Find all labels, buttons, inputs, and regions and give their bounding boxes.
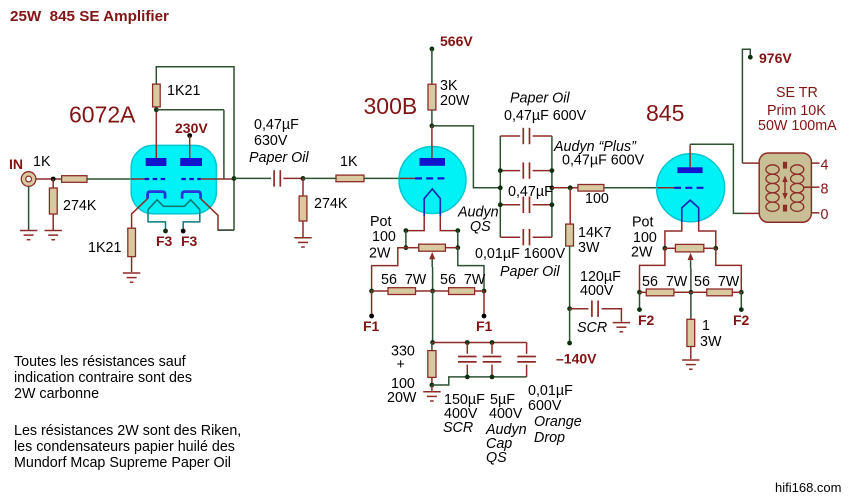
wire anode node to cap ladder — [432, 126, 500, 188]
svg-text:6072A: 6072A — [69, 102, 136, 128]
svg-text:0: 0 — [821, 207, 829, 223]
wire R8 to ground — [302, 221, 304, 237]
wire grid lead inside — [400, 177, 416, 179]
svg-text:1K: 1K — [340, 154, 358, 170]
wire C7 bottom lead — [491, 365, 493, 377]
capacitor C3 0,47uF 600V Audyn Plus — [523, 162, 529, 178]
U1 right anode plate — [180, 158, 202, 166]
node R3 bottom — [154, 107, 159, 112]
svg-text:0,47µF 600V: 0,47µF 600V — [562, 153, 645, 169]
capacitor C7 5uF 400V Audyn Cap QS — [483, 357, 502, 362]
resistor R13 56 7W — [449, 288, 475, 295]
wire C8 top lead — [526, 343, 528, 354]
node rail left b3 — [498, 202, 503, 207]
ground R14 — [423, 392, 440, 401]
svg-text:Les résistances 2W sont des Ri: Les résistances 2W sont des Riken, — [14, 423, 241, 439]
svg-text:Toutes les résistances sauf: Toutes les résistances sauf — [14, 354, 186, 370]
svg-text:0,01µF: 0,01µF — [528, 383, 573, 399]
terminal 230V test point — [187, 133, 192, 138]
wire input to ground — [28, 186, 30, 230]
resistor R3 1K21 plate load — [153, 84, 161, 107]
node ladder output tap — [550, 185, 555, 190]
U1 left anode plate — [146, 158, 167, 166]
svg-text:+: + — [397, 357, 405, 373]
wire T1 primary top pin — [742, 162, 759, 164]
transformer T1 body — [759, 153, 811, 222]
svg-text:Orange: Orange — [534, 414, 582, 430]
wire cap bus bottom — [432, 377, 527, 385]
resistor R11 14K7 3W — [566, 224, 574, 246]
wire left cathode to R6 — [132, 199, 148, 229]
U2 filament — [424, 189, 440, 216]
wire transformer pin stub bottom-left — [744, 212, 759, 214]
wire branch4 left — [500, 236, 520, 238]
wire anode to transformer 0 pin — [690, 144, 744, 213]
terminal F2 left — [637, 307, 642, 312]
node rail right b3 — [550, 202, 555, 207]
svg-text:2W: 2W — [369, 246, 391, 262]
P2 wiper arrow — [688, 253, 694, 268]
resistor R10 100 grid stopper 845 — [578, 185, 604, 192]
node R14 bottom — [430, 383, 435, 388]
svg-text:4: 4 — [821, 158, 829, 174]
wire to F2 right — [740, 292, 742, 309]
wire to F1 right — [483, 291, 485, 316]
wire C8 bottom lead — [526, 365, 528, 377]
wire left filament to pot — [405, 231, 407, 248]
wire R11 to bias node — [569, 246, 571, 309]
wire to F1 left — [371, 291, 373, 316]
wire node down to R8 — [302, 178, 304, 196]
svg-text:F1: F1 — [363, 318, 380, 334]
wire T1 tap 0 — [811, 212, 819, 214]
terminal F3 right — [181, 229, 186, 234]
U1 right grid (dashed) — [181, 178, 201, 180]
wire wiper845 down — [690, 268, 692, 292]
U1 left grid (dashed) — [145, 178, 166, 180]
svg-text:Pot: Pot — [632, 215, 653, 231]
node bus bottom C7 — [490, 375, 495, 380]
wire node to R2 — [52, 179, 54, 188]
resistor R1 1K series input — [62, 176, 87, 183]
wire C7 top lead — [491, 343, 493, 354]
svg-text:les condensateurs papier huilé: les condensateurs papier huilé des — [14, 439, 235, 455]
wire cathode node horizontal — [218, 229, 234, 231]
U1 right cathode — [182, 192, 200, 199]
svg-text:3W: 3W — [578, 240, 600, 256]
svg-text:QS: QS — [470, 219, 491, 235]
svg-text:100: 100 — [372, 229, 396, 245]
T1 coupling arrow — [782, 176, 787, 200]
wire to R15 — [640, 291, 647, 293]
T1 secondary winding — [791, 165, 804, 212]
wire R9 to node — [431, 110, 433, 126]
wire pot845 right branch — [716, 248, 742, 292]
capacitor C6 150uF 400V SCR — [458, 357, 477, 362]
svg-text:Prim 10K: Prim 10K — [767, 103, 826, 119]
svg-text:230V: 230V — [175, 120, 208, 136]
wire R3 top to output node — [156, 67, 234, 178]
capacitor C2 0,47uF 600V Paper Oil — [523, 128, 529, 144]
svg-text:56 7W: 56 7W — [381, 272, 427, 288]
svg-text:56 7W: 56 7W — [694, 274, 740, 290]
wire right grid to node — [201, 178, 234, 180]
potentiometer P1 100 2W hum pot — [419, 244, 446, 251]
wire wiper down — [432, 267, 434, 291]
potentiometer P2 100 2W hum pot 845 — [675, 244, 703, 252]
ground C9 — [613, 323, 630, 332]
wire branch3 right — [533, 204, 552, 206]
wire node to R14 — [431, 343, 433, 351]
node 845 grid net — [568, 185, 573, 190]
node bus C7 — [490, 340, 495, 345]
wire C6 bottom lead — [466, 365, 468, 377]
U2 anode plate — [420, 158, 446, 166]
resistor R12 56 7W — [388, 288, 416, 295]
wire T1 tap 8 — [804, 186, 820, 188]
svg-text:Paper Oil: Paper Oil — [249, 150, 309, 166]
node pot left 845 — [663, 246, 668, 251]
svg-text:274K: 274K — [314, 196, 348, 212]
wire B+ 976V rail — [742, 49, 750, 163]
tube U2 300B envelope — [399, 147, 466, 214]
resistor R8 274K grid leak 300B — [299, 196, 307, 221]
wire R17 to ground — [690, 347, 692, 360]
resistor R2 274K input shunt — [49, 188, 57, 214]
wire C6 top lead — [466, 343, 468, 354]
terminal F3 left — [163, 229, 168, 234]
T1 primary winding — [766, 165, 779, 212]
tube U3 845 envelope — [657, 154, 725, 222]
wire right cathode to node — [201, 199, 235, 231]
svg-text:Pot: Pot — [370, 214, 391, 230]
resistor R6 1K21 cathode — [128, 228, 136, 256]
svg-text:14K7: 14K7 — [578, 225, 611, 241]
svg-text:274K: 274K — [63, 198, 97, 214]
node filament right — [455, 228, 460, 233]
svg-text:hifi168.com: hifi168.com — [775, 480, 841, 495]
capacitor C4 0,47uF Audyn QS — [523, 197, 529, 213]
wire down to right grid — [223, 110, 225, 179]
svg-text:20W: 20W — [387, 390, 417, 406]
tube U1 6072A envelope — [131, 145, 216, 213]
wire pot845 right stub — [704, 247, 716, 249]
node pot right 845 — [713, 246, 718, 251]
wire ladder left rail — [499, 136, 501, 237]
wire R3 to U1 left anode — [155, 110, 157, 158]
wire to R12 — [372, 290, 388, 292]
svg-text:1K21: 1K21 — [167, 83, 200, 99]
svg-text:2W carbonne: 2W carbonne — [14, 386, 99, 402]
svg-text:SCR: SCR — [443, 420, 473, 436]
node bus bottom C6 — [465, 375, 470, 380]
svg-text:845: 845 — [646, 100, 684, 126]
ground R17 — [682, 360, 699, 369]
wire to F2 left — [639, 292, 641, 309]
svg-text:Paper Oil: Paper Oil — [510, 91, 570, 107]
wire grid lead inside U3 — [657, 187, 674, 189]
U3 anode plate — [677, 167, 702, 173]
capacitor C8 0,01uF 600V Orange Drop — [517, 357, 536, 362]
svg-text:400V: 400V — [489, 406, 523, 422]
resistor R15 56 7W — [646, 289, 674, 296]
wire to ground R14 — [431, 385, 433, 391]
wire center down to R14 — [432, 291, 434, 343]
node hum right 845 — [739, 290, 744, 295]
node 300B anode supply — [430, 124, 435, 129]
node bus C6 — [465, 340, 470, 345]
resistor R9 3K 20W — [428, 84, 436, 110]
resistor R7 1K grid stopper 300B — [336, 175, 364, 182]
wire center to R13 — [433, 290, 449, 292]
P1 wiper arrow — [429, 252, 435, 267]
U1 heater filament — [148, 200, 200, 210]
svg-text:100: 100 — [585, 191, 609, 207]
node hum center 300B — [430, 289, 435, 294]
ground R6 — [123, 273, 140, 282]
svg-text:IN: IN — [9, 156, 23, 172]
svg-text:630V: 630V — [254, 133, 288, 149]
wire right filament to pot — [457, 231, 459, 248]
wire pot left to hum network — [372, 248, 406, 291]
wire node to C9 — [570, 308, 589, 310]
wire C9 to ground — [602, 309, 622, 322]
wire R15 to center — [674, 291, 691, 293]
wire pot845 left branch — [640, 248, 665, 292]
node rail right b2 — [550, 168, 555, 173]
ground input — [20, 231, 37, 240]
wire ladder right rail — [551, 136, 553, 237]
U1 left cathode — [148, 192, 166, 199]
wire T1 tap 4 — [811, 162, 819, 164]
wire branch1 right — [533, 135, 552, 137]
wire center to R17 — [690, 292, 692, 319]
terminal 976V — [748, 55, 753, 60]
capacitor C1 0,47uF 630V — [274, 170, 280, 186]
wire R12 to center — [416, 290, 433, 292]
svg-text:F2: F2 — [638, 312, 655, 328]
node R14 top — [430, 340, 435, 345]
wire heater right lead — [183, 210, 200, 229]
node input junction — [51, 177, 56, 182]
resistor R14 330+100 20W — [428, 351, 436, 378]
terminal F1 right — [482, 314, 487, 319]
svg-text:QS: QS — [486, 450, 507, 466]
svg-text:400V: 400V — [580, 283, 614, 299]
svg-text:8: 8 — [821, 182, 829, 198]
wire R6 to ground — [131, 257, 133, 272]
wire filament left leg — [406, 216, 424, 231]
wire bias node down — [569, 309, 571, 343]
svg-text:F2: F2 — [733, 312, 750, 328]
wire R16 right — [732, 291, 741, 293]
wire output node down — [233, 178, 235, 230]
wire 566V to R9 — [431, 49, 433, 84]
wire 230V to right anode — [189, 136, 191, 159]
terminal F1 left — [369, 314, 374, 319]
svg-text:0,47µF 600V: 0,47µF 600V — [504, 108, 587, 124]
wire branch4 right — [533, 236, 552, 238]
svg-text:976V: 976V — [759, 50, 792, 66]
resistor R16 56 7W — [707, 289, 733, 296]
node hum center 845 — [689, 290, 694, 295]
svg-text:50W 100mA: 50W 100mA — [758, 118, 837, 134]
U3 grid (dashed) — [674, 187, 704, 189]
terminal -140V — [567, 341, 572, 346]
capacitor C9 120uF 400V SCR — [592, 301, 598, 317]
wire U3 filament left leg — [665, 222, 682, 248]
U3 filament — [682, 200, 699, 222]
node hum left 845 — [637, 290, 642, 295]
svg-text:3W: 3W — [700, 334, 722, 350]
svg-text:0,47µF: 0,47µF — [254, 117, 299, 133]
svg-text:600V: 600V — [528, 398, 562, 414]
node bias — [567, 306, 572, 311]
svg-text:Mundorf Mcap Supreme Paper Oil: Mundorf Mcap Supreme Paper Oil — [14, 455, 231, 471]
node 300B grid net — [301, 176, 306, 181]
node ladder input tap — [498, 185, 503, 190]
svg-text:566V: 566V — [440, 33, 473, 49]
wire branch2 right — [533, 170, 552, 172]
wire branch1 left — [500, 135, 520, 137]
svg-text:F1: F1 — [476, 318, 493, 334]
wire branch3 left — [500, 204, 520, 206]
svg-text:F3: F3 — [181, 233, 198, 249]
wire pot845 left stub — [665, 247, 676, 249]
wire R10 to 845 grid — [604, 187, 657, 189]
node pot left 300B — [404, 245, 409, 250]
wire node to U2 anode — [431, 126, 433, 158]
svg-text:20W: 20W — [440, 93, 470, 109]
node U1 output — [232, 176, 237, 181]
wire cap bus top — [433, 342, 527, 344]
node hum left 300B — [369, 289, 374, 294]
wire R2 to ground — [52, 214, 54, 230]
wire filament right leg — [440, 216, 458, 231]
wire node to C1 — [234, 177, 271, 179]
svg-text:25W 845 SE Amplifier: 25W 845 SE Amplifier — [10, 8, 169, 25]
wire tap to R10 — [552, 187, 578, 189]
svg-text:56 7W: 56 7W — [440, 272, 486, 288]
svg-text:3K: 3K — [440, 78, 458, 94]
wire R14 to node — [431, 377, 433, 385]
ground R8 — [294, 238, 311, 247]
wire pot right to hum network — [458, 248, 484, 291]
wire R13 right — [475, 290, 484, 292]
wire U3 anode up — [689, 144, 691, 167]
T1 core marks — [783, 162, 787, 212]
wire branch2 left — [500, 170, 520, 172]
wire connector to R1 — [36, 178, 62, 180]
svg-text:SCR: SCR — [577, 320, 607, 336]
wire node to R7 — [303, 177, 336, 179]
wire pot right stub — [445, 247, 457, 249]
capacitor C5 0,01uF 1600V Paper Oil — [523, 229, 529, 245]
wire R7 to 300B grid — [364, 177, 400, 179]
svg-text:1: 1 — [702, 318, 710, 334]
input connector J1 — [21, 172, 36, 187]
wire heater left lead — [148, 210, 166, 229]
svg-text:0,01µF 1600V: 0,01µF 1600V — [475, 246, 566, 262]
wire into left grid — [131, 178, 144, 180]
svg-text:indication contraire sont des: indication contraire sont des — [14, 370, 192, 386]
svg-text:56 7W: 56 7W — [642, 274, 688, 290]
svg-text:0,47µF: 0,47µF — [508, 184, 553, 200]
node filament left — [404, 228, 409, 233]
ground R2 — [45, 231, 62, 240]
svg-text:300B: 300B — [364, 93, 418, 119]
U2 grid (dashed) — [415, 177, 445, 179]
wire center to R16 — [691, 291, 707, 293]
node hum right 300B — [482, 289, 487, 294]
svg-text:Paper Oil: Paper Oil — [500, 264, 560, 280]
svg-text:1K21: 1K21 — [88, 240, 121, 256]
wire R1 to 6072A grid — [87, 178, 132, 180]
resistor R17 1 3W — [687, 319, 695, 346]
svg-text:SE TR: SE TR — [776, 85, 818, 101]
node rail left b2 — [498, 168, 503, 173]
svg-text:Drop: Drop — [534, 430, 565, 446]
wire node down to R11 — [569, 188, 571, 224]
wire anode node right — [156, 109, 224, 111]
wire C1 to node — [283, 177, 303, 179]
svg-text:–140V: –140V — [556, 351, 597, 367]
terminal F2 right — [739, 307, 744, 312]
svg-text:2W: 2W — [631, 245, 653, 261]
svg-text:1K: 1K — [33, 154, 51, 170]
wire U3 filament right leg — [699, 222, 716, 248]
terminal 566V — [430, 47, 435, 52]
svg-text:F3: F3 — [156, 233, 173, 249]
node pot right 300B — [455, 245, 460, 250]
wire pot left stub — [406, 247, 419, 249]
